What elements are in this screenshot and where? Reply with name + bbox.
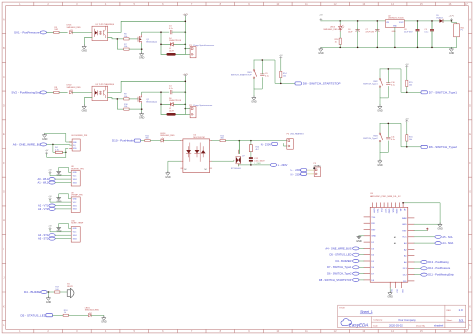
pin top A7 xyxy=(402,203,404,208)
svg-text:D8 - SWITCH_STARTSTOP: D8 - SWITCH_STARTSTOP xyxy=(303,82,341,86)
MCU module U5 ARDUINO_PRO_MINI_DIL_5V xyxy=(370,207,408,282)
wire xyxy=(47,31,54,33)
wire +4.7V rail xyxy=(184,77,186,115)
wire xyxy=(280,78,282,84)
junction xyxy=(431,47,433,49)
switch SW1 xyxy=(253,60,255,70)
capacitor C6 xyxy=(356,28,360,32)
svg-text:A4 - ST1: A4 - ST1 xyxy=(38,233,49,237)
resistor R6 xyxy=(124,38,129,40)
wire top xyxy=(380,69,421,92)
svg-text:D: D xyxy=(469,104,471,108)
pin left D5 xyxy=(364,260,370,262)
svg-text:EasyEDA: EasyEDA xyxy=(349,322,369,327)
netport D13 - PosMissing xyxy=(414,261,421,263)
wire to connector pin 2 xyxy=(185,53,190,55)
pin left GND xyxy=(364,235,370,237)
svg-text:U3 TLP172A(GRM,E: U3 TLP172A(GRM,E xyxy=(96,83,115,86)
wire to lower resistor xyxy=(117,99,123,109)
wire to lower resistor xyxy=(117,39,123,49)
junction xyxy=(117,38,119,40)
pin bottom D11 xyxy=(401,282,403,288)
svg-text:D11 - PosMissingStrip: D11 - PosMissingStrip xyxy=(428,273,454,277)
resistor R7 xyxy=(124,48,129,50)
EasyEDA logo xyxy=(341,319,351,326)
svg-text:D4 - BUZZER: D4 - BUZZER xyxy=(24,290,43,294)
svg-text:10k: 10k xyxy=(124,106,127,108)
ground xyxy=(388,291,394,299)
pin right D11 xyxy=(408,280,414,282)
svg-text:4.7u: 4.7u xyxy=(169,28,173,30)
svg-text:TITLE:: TITLE: xyxy=(339,307,345,309)
svg-text:+4.7V: +4.7V xyxy=(449,15,455,17)
resistor R16 xyxy=(406,135,408,141)
pin right GND xyxy=(408,223,414,225)
svg-text:shashel: shashel xyxy=(434,324,444,328)
resistor R9A xyxy=(339,38,341,44)
svg-text:10k: 10k xyxy=(409,139,412,141)
wire xyxy=(53,314,64,316)
ground xyxy=(42,133,48,141)
junction xyxy=(160,104,162,106)
svg-text:+4.7V: +4.7V xyxy=(183,74,189,76)
connector P5 LNS_HEATING xyxy=(287,139,294,150)
wire xyxy=(47,291,54,293)
svg-text:L - 230V: L - 230V xyxy=(278,163,288,167)
svg-text:E: E xyxy=(3,132,5,136)
junction xyxy=(65,152,67,154)
pin top GRN xyxy=(395,203,397,208)
svg-text:SMD0603_RED: SMD0603_RED xyxy=(323,29,338,31)
svg-text:D8 - SWITCH_STARTSTOP: D8 - SWITCH_STARTSTOP xyxy=(319,278,352,282)
LED LED2 xyxy=(69,90,72,94)
svg-text:2020-03-02: 2020-03-02 xyxy=(389,324,403,328)
svg-text:GND: GND xyxy=(388,209,390,214)
resistor R4 pullup xyxy=(55,151,62,153)
svg-text:SMD0603_RED: SMD0603_RED xyxy=(67,27,82,29)
resistor R13 snubber xyxy=(249,145,252,152)
svg-text:1k: 1k xyxy=(335,41,337,43)
svg-text:D7 - SWITCH_Type1: D7 - SWITCH_Type1 xyxy=(327,265,352,269)
netport D7 - SWITCH_Type1 xyxy=(421,91,427,94)
junction xyxy=(402,202,404,204)
ground xyxy=(139,112,145,120)
svg-text:B: B xyxy=(469,46,471,50)
svg-text:U1 TLP172A(GRM,E: U1 TLP172A(GRM,E xyxy=(96,23,115,26)
wire xyxy=(250,152,252,158)
ground xyxy=(82,45,88,53)
wire top xyxy=(380,123,421,146)
svg-text:N -: N - xyxy=(291,173,294,176)
wire xyxy=(59,91,67,93)
wire xyxy=(380,141,388,153)
ground xyxy=(46,296,52,304)
ground xyxy=(318,47,324,55)
LED LED1 xyxy=(69,30,72,34)
wire triac mt2 xyxy=(238,141,240,154)
ground flag xyxy=(57,227,61,229)
wire to connector pin 2 xyxy=(185,113,190,115)
wire xyxy=(55,178,71,180)
junction xyxy=(417,20,419,22)
svg-text:Date:: Date: xyxy=(373,325,378,328)
optocoupler U1 xyxy=(92,26,108,40)
junction xyxy=(339,20,341,22)
junction xyxy=(52,144,54,146)
wire xyxy=(69,314,89,316)
svg-text:10k: 10k xyxy=(409,84,412,86)
pin left D6 xyxy=(364,266,370,268)
wire opto output row xyxy=(212,140,220,142)
wire xyxy=(376,21,378,48)
power flag +5V xyxy=(280,57,282,59)
LED LED6 xyxy=(161,138,164,142)
wire bottom pin to ground xyxy=(389,288,391,291)
svg-text:A1 - WL2: A1 - WL2 xyxy=(37,180,48,184)
svg-text:LNS_HEATING: LNS_HEATING xyxy=(290,132,304,135)
svg-text:1/1: 1/1 xyxy=(459,318,463,322)
wire regulator ground xyxy=(394,27,396,47)
capacitor C5 xyxy=(430,29,434,31)
svg-text:N - 230V: N - 230V xyxy=(261,143,272,147)
wire xyxy=(172,91,185,93)
pin left D3 xyxy=(364,247,370,249)
pin left TX0 xyxy=(364,216,370,218)
wire xyxy=(45,133,72,142)
svg-text:DS18B20_PIN: DS18B20_PIN xyxy=(74,135,88,137)
svg-text:47uF 63V: 47uF 63V xyxy=(365,32,374,34)
wire xyxy=(339,21,341,38)
wire opto lower-left to ground xyxy=(168,161,181,171)
svg-text:D13 - PosMissing: D13 - PosMissing xyxy=(428,260,449,264)
netport D12 - PosPressure xyxy=(414,267,421,269)
wire drain to snubber rail xyxy=(142,92,169,94)
svg-text:4.7u: 4.7u xyxy=(169,88,173,90)
wire xyxy=(129,98,138,100)
svg-text:SURF_TEMP: SURF_TEMP xyxy=(71,223,84,225)
svg-text:VCC: VCC xyxy=(384,209,386,214)
junction xyxy=(417,47,419,49)
inductor L1 xyxy=(161,53,185,55)
svg-text:WLEVEL_PIN: WLEVEL_PIN xyxy=(71,168,84,170)
junction xyxy=(117,98,119,100)
junction xyxy=(388,68,390,70)
svg-text:0.1u: 0.1u xyxy=(424,32,428,34)
netport D6 - SWITCH_Type2 xyxy=(421,145,427,148)
svg-text:SWITCH_STARTSTOP: SWITCH_STARTSTOP xyxy=(231,74,252,77)
wire connector pin2 xyxy=(284,143,287,146)
wire xyxy=(406,68,408,81)
svg-text:D10 - PosHeating: D10 - PosHeating xyxy=(112,139,136,143)
wire xyxy=(406,141,408,147)
buzzer B1 xyxy=(67,290,70,297)
junction xyxy=(185,108,187,110)
svg-text:MOCD207M: MOCD207M xyxy=(193,137,204,139)
wire opto collector to top rail xyxy=(108,21,186,32)
capacitor C7 xyxy=(375,28,379,32)
svg-text:GRN: GRN xyxy=(395,209,397,214)
svg-text:10uF: 10uF xyxy=(348,32,353,34)
pin left RXI xyxy=(364,222,370,224)
svg-text:D4 - BUZZER: D4 - BUZZER xyxy=(336,259,352,263)
junction xyxy=(431,20,433,22)
svg-text:D9: D9 xyxy=(390,289,392,291)
wire xyxy=(55,238,71,240)
wire to pullup xyxy=(53,144,56,152)
svg-text:VTEMP_PIN: VTEMP_PIN xyxy=(71,195,83,197)
header U6 DS18B20_PIN xyxy=(72,139,80,151)
junction xyxy=(388,123,390,125)
resistor R10 xyxy=(124,108,129,110)
pin right A0 xyxy=(408,261,414,263)
resistor R12 xyxy=(220,140,225,142)
svg-text:H: H xyxy=(469,218,471,222)
svg-text:D: D xyxy=(3,104,5,108)
ground xyxy=(251,96,257,104)
pin bottom D9 xyxy=(389,282,391,288)
svg-text:10k: 10k xyxy=(124,96,127,98)
svg-text:SV1 - PosPressure: SV1 - PosPressure xyxy=(14,31,40,35)
junction xyxy=(239,140,241,142)
svg-text:E: E xyxy=(469,132,471,136)
svg-text:A4 - SDA: A4 - SDA xyxy=(442,241,453,245)
netport L - 230V xyxy=(270,163,276,166)
svg-text:RST: RST xyxy=(371,229,376,231)
wire opto emitter to gate resistors xyxy=(108,98,124,99)
wire MOSFET source to ground xyxy=(141,44,143,53)
wire xyxy=(380,86,388,98)
power flag +5V xyxy=(49,171,51,173)
pin right D13 xyxy=(408,267,414,269)
capacitor C10 xyxy=(386,83,390,85)
pin top TX0 xyxy=(376,203,378,208)
wire xyxy=(129,38,138,40)
diode D5 xyxy=(439,19,443,23)
svg-text:BS250(bad): BS250(bad) xyxy=(146,101,157,103)
svg-text:K: K xyxy=(3,304,5,308)
MOSFET Q2 xyxy=(138,94,142,103)
svg-text:BT136-600: BT136-600 xyxy=(231,168,242,170)
MOSFET Q1 xyxy=(138,34,142,43)
power flag +5V xyxy=(406,120,408,122)
svg-text:RXI: RXI xyxy=(380,209,382,213)
svg-text:DTR: DTR xyxy=(372,209,374,214)
wire xyxy=(72,91,92,93)
LED LED5 xyxy=(88,312,91,316)
svg-text:A4: A4 xyxy=(394,242,396,245)
svg-text:D5 - STATUS_LED: D5 - STATUS_LED xyxy=(21,313,47,317)
netport D4 - BUZZER xyxy=(359,260,364,262)
wire vcc xyxy=(50,230,71,232)
svg-text:SMD0603_RED: SMD0603_RED xyxy=(85,310,100,312)
svg-text:1N4007PLUS: 1N4007PLUS xyxy=(169,100,182,102)
svg-text:A6 - ONE_WIRE_BUS: A6 - ONE_WIRE_BUS xyxy=(13,143,43,147)
svg-text:D10: D10 xyxy=(395,289,397,292)
junction xyxy=(357,20,359,22)
pin left D2 xyxy=(364,241,370,243)
svg-text:1N4007PLUS: 1N4007PLUS xyxy=(169,40,182,42)
junction xyxy=(406,92,408,94)
wire xyxy=(59,31,67,33)
netport N - 230V flag xyxy=(301,172,307,175)
wire output rail xyxy=(404,20,439,22)
wire opto lower-left to GND xyxy=(84,98,92,105)
wire xyxy=(60,291,68,293)
wire xyxy=(141,140,145,142)
wire bottom xyxy=(47,148,68,157)
svg-text:SIG2: SIG2 xyxy=(73,182,77,184)
svg-text:230VAC: 230VAC xyxy=(314,164,322,167)
pin right RST xyxy=(408,230,414,232)
pin top RXI xyxy=(379,203,381,208)
header U8 WLEVEL_PIN xyxy=(71,171,80,187)
power flag +4.7V xyxy=(184,15,186,17)
resistor R8 xyxy=(54,91,59,93)
resistor R18 xyxy=(63,314,68,316)
svg-text:SMD0603_RED: SMD0603_RED xyxy=(160,135,175,137)
junction xyxy=(280,83,282,85)
pin right VCC xyxy=(408,236,414,238)
pin top GND xyxy=(387,203,389,208)
netport D8 - SWITCH_STARTSTOP xyxy=(359,279,364,281)
wire xyxy=(91,315,104,316)
junction xyxy=(185,91,187,93)
wire xyxy=(55,208,71,210)
ground xyxy=(437,223,443,231)
svg-text:D6 - SWITCH_Type2: D6 - SWITCH_Type2 xyxy=(429,145,458,149)
svg-text:L -: L - xyxy=(291,169,294,172)
wire to ground xyxy=(48,292,50,296)
wire vcc xyxy=(50,200,71,202)
power flag VCC right xyxy=(414,230,427,232)
connector P3 230VAC xyxy=(314,167,320,177)
svg-text:10uH: 10uH xyxy=(169,110,174,112)
ground xyxy=(377,159,383,167)
svg-text:BUZR: BUZR xyxy=(67,286,73,288)
svg-text:LM2940/1-TO220: LM2940/1-TO220 xyxy=(388,18,405,20)
svg-text:RST: RST xyxy=(402,230,407,232)
svg-text:SIG1: SIG1 xyxy=(73,205,77,207)
netport D7 - SWITCH_Type1 xyxy=(359,266,364,268)
wire xyxy=(129,108,142,110)
wire xyxy=(452,21,457,24)
pin right A3 xyxy=(408,242,414,244)
wire left snubber vertical xyxy=(160,92,162,114)
junction xyxy=(339,47,341,49)
resistor R17 xyxy=(55,291,60,293)
resistor R14 xyxy=(280,71,282,77)
capacitor C12 snubber xyxy=(249,157,253,159)
pin top A6 xyxy=(398,203,400,208)
wire bottom rail xyxy=(321,46,457,48)
switch SW2 xyxy=(379,69,381,79)
wire +5V rail xyxy=(321,20,386,22)
connector P1 xyxy=(190,47,196,58)
junction xyxy=(394,47,396,49)
svg-text:SIG2: SIG2 xyxy=(73,238,77,240)
pin top BLK xyxy=(391,203,393,208)
svg-text:SWITCH_Type2: SWITCH_Type2 xyxy=(363,138,378,140)
power flag +5V xyxy=(49,227,51,229)
svg-text:REV:: REV: xyxy=(447,310,452,312)
netport D5 - STATUS_LED xyxy=(359,254,364,256)
pin right A2 xyxy=(408,248,414,250)
junction xyxy=(451,20,453,22)
ground flag xyxy=(57,171,61,173)
svg-text:SWITCH_Type1: SWITCH_Type1 xyxy=(363,83,378,85)
wire xyxy=(254,78,262,90)
wire to connector xyxy=(185,108,190,110)
ground xyxy=(82,105,88,113)
wire xyxy=(280,59,282,72)
junction xyxy=(377,47,379,49)
wire ground loop xyxy=(59,167,71,172)
junction xyxy=(185,81,187,83)
capacitor C4 xyxy=(170,90,172,94)
power flag +5V xyxy=(406,66,408,68)
wire MOSFET source to ground xyxy=(141,104,143,113)
capacitor C9 xyxy=(260,74,264,76)
svg-text:+4.7V: +4.7V xyxy=(183,14,189,16)
svg-text:SMD0603_RED: SMD0603_RED xyxy=(67,87,82,89)
pin top DTR xyxy=(372,203,374,208)
svg-text:1.0: 1.0 xyxy=(459,308,464,312)
svg-text:GND: GND xyxy=(402,224,407,226)
header U9 VTEMP_PIN xyxy=(71,197,80,213)
resistor R15 xyxy=(406,80,408,86)
svg-text:Sheet:: Sheet: xyxy=(447,319,453,322)
junction xyxy=(377,20,379,22)
power flag +5V xyxy=(49,198,51,200)
svg-text:22uF 63V: 22uF 63V xyxy=(404,32,413,34)
svg-text:A0 - WL1: A0 - WL1 xyxy=(37,177,48,181)
svg-text:D12 - PosPressure: D12 - PosPressure xyxy=(428,266,450,270)
svg-text:A: A xyxy=(469,18,471,22)
wire xyxy=(47,143,73,146)
pin left RST xyxy=(364,229,370,231)
capacitor C8 xyxy=(416,29,420,31)
svg-text:D7 - SWITCH_Type1: D7 - SWITCH_Type1 xyxy=(429,90,458,94)
svg-text:1k: 1k xyxy=(64,312,66,314)
svg-text:A: A xyxy=(3,18,5,22)
ground flag left GND pin xyxy=(359,235,364,237)
junction xyxy=(141,108,143,110)
junction xyxy=(357,47,359,49)
svg-text:4.7k: 4.7k xyxy=(55,149,59,151)
LED LED3 xyxy=(339,24,342,32)
svg-text:10R: 10R xyxy=(54,89,58,91)
svg-text:BLK: BLK xyxy=(391,209,393,214)
svg-text:SIG2: SIG2 xyxy=(73,209,77,211)
svg-text:A4 - ONE_WIRE_BUS: A4 - ONE_WIRE_BUS xyxy=(325,246,351,250)
svg-text:G: G xyxy=(469,190,471,194)
wire vcc xyxy=(50,174,71,176)
diode D4 xyxy=(161,43,185,45)
svg-text:0.1u: 0.1u xyxy=(391,139,395,141)
svg-text:10k: 10k xyxy=(283,76,286,78)
svg-text:0.01u 630V: 0.01u 630V xyxy=(254,161,265,163)
svg-text:K: K xyxy=(469,304,471,308)
capacitor C11 xyxy=(386,137,390,139)
inductor L2 xyxy=(161,113,185,115)
junction xyxy=(185,48,187,50)
diode D6 xyxy=(161,103,185,105)
svg-text:H: H xyxy=(3,218,5,222)
svg-text:L_230V: L_230V xyxy=(254,163,261,165)
netport D6 - SWITCH_Type2 xyxy=(359,273,364,275)
header U10 SURF_TEMP xyxy=(71,227,80,243)
netport D8 - SWITCH_STARTSTOP xyxy=(295,82,301,85)
